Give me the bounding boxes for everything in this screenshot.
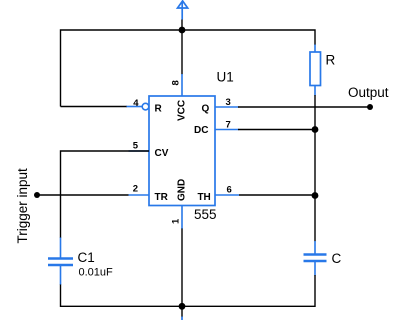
node Output terminal dot <box>367 104 373 110</box>
pin 1 GND stub <box>181 206 183 230</box>
pin 8 VCC stub <box>181 74 183 96</box>
resistor R bottom lead <box>314 86 316 96</box>
svg-text:TR: TR <box>155 192 169 203</box>
svg-text:GND: GND <box>177 179 188 201</box>
svg-text:1: 1 <box>170 218 181 224</box>
op-amp U1 555 timer body <box>149 96 215 206</box>
svg-text:R: R <box>155 104 163 115</box>
svg-text:Output: Output <box>348 85 389 100</box>
ground symbol stem <box>181 317 183 320</box>
svg-text:C1: C1 <box>78 250 95 265</box>
wire VCC pin 8 stem <box>181 30 183 75</box>
pin 6 TH stub <box>215 194 239 196</box>
svg-text:R: R <box>326 53 336 68</box>
svg-text:Q: Q <box>202 104 210 115</box>
wire CV vertical to C1 <box>61 151 150 238</box>
capacitor C <box>304 241 327 276</box>
capacitor C1 <box>48 238 73 285</box>
svg-text:555: 555 <box>194 207 217 222</box>
resistor R top lead <box>314 45 316 53</box>
wire right rail resistor to DC junction <box>314 95 316 196</box>
svg-text:7: 7 <box>226 120 231 131</box>
pin 7 DC stub <box>215 129 239 131</box>
wire GND pin to bottom rail <box>181 229 183 318</box>
svg-text:CV: CV <box>155 148 169 159</box>
pin 3 Q stub <box>215 106 239 108</box>
svg-text:C: C <box>332 251 342 266</box>
wire right rail TH junction to capacitor C <box>314 196 316 242</box>
svg-text:2: 2 <box>133 184 138 195</box>
svg-text:U1: U1 <box>217 70 234 85</box>
wire top rail VCC <box>61 30 316 107</box>
node junction ground rail <box>179 303 186 310</box>
pin 2 TR stub <box>129 194 150 196</box>
node junction top <box>179 27 186 34</box>
wire bottom rail left <box>61 284 183 306</box>
svg-text:0.01uF: 0.01uF <box>79 267 114 279</box>
svg-text:5: 5 <box>133 141 139 152</box>
svg-text:4: 4 <box>133 98 139 109</box>
svg-text:Trigger input: Trigger input <box>15 168 30 244</box>
wire Q output line <box>238 106 370 108</box>
svg-text:6: 6 <box>227 185 232 196</box>
resistor R body <box>310 52 321 86</box>
svg-text:VCC: VCC <box>177 100 188 121</box>
svg-text:DC: DC <box>194 125 208 136</box>
power symbol VCC arrow <box>178 1 188 20</box>
wire TH to right rail <box>239 194 315 196</box>
wire capacitor C to bottom rail <box>182 275 315 306</box>
node junction TH <box>312 192 319 199</box>
pin 4 R bubble <box>142 103 149 110</box>
node Trigger input terminal dot <box>34 192 40 198</box>
svg-text:TH: TH <box>197 192 210 203</box>
svg-text:3: 3 <box>226 97 231 108</box>
node junction DC <box>312 126 319 133</box>
svg-text:8: 8 <box>170 80 181 85</box>
wire R reset pin to left rail <box>61 106 128 108</box>
wire trigger input to TR pin <box>37 194 129 196</box>
wire power stem black <box>181 20 183 32</box>
wire DC to right rail <box>238 129 315 131</box>
pin 4 R stub <box>127 106 143 108</box>
pin 5 CV stub <box>129 150 150 152</box>
